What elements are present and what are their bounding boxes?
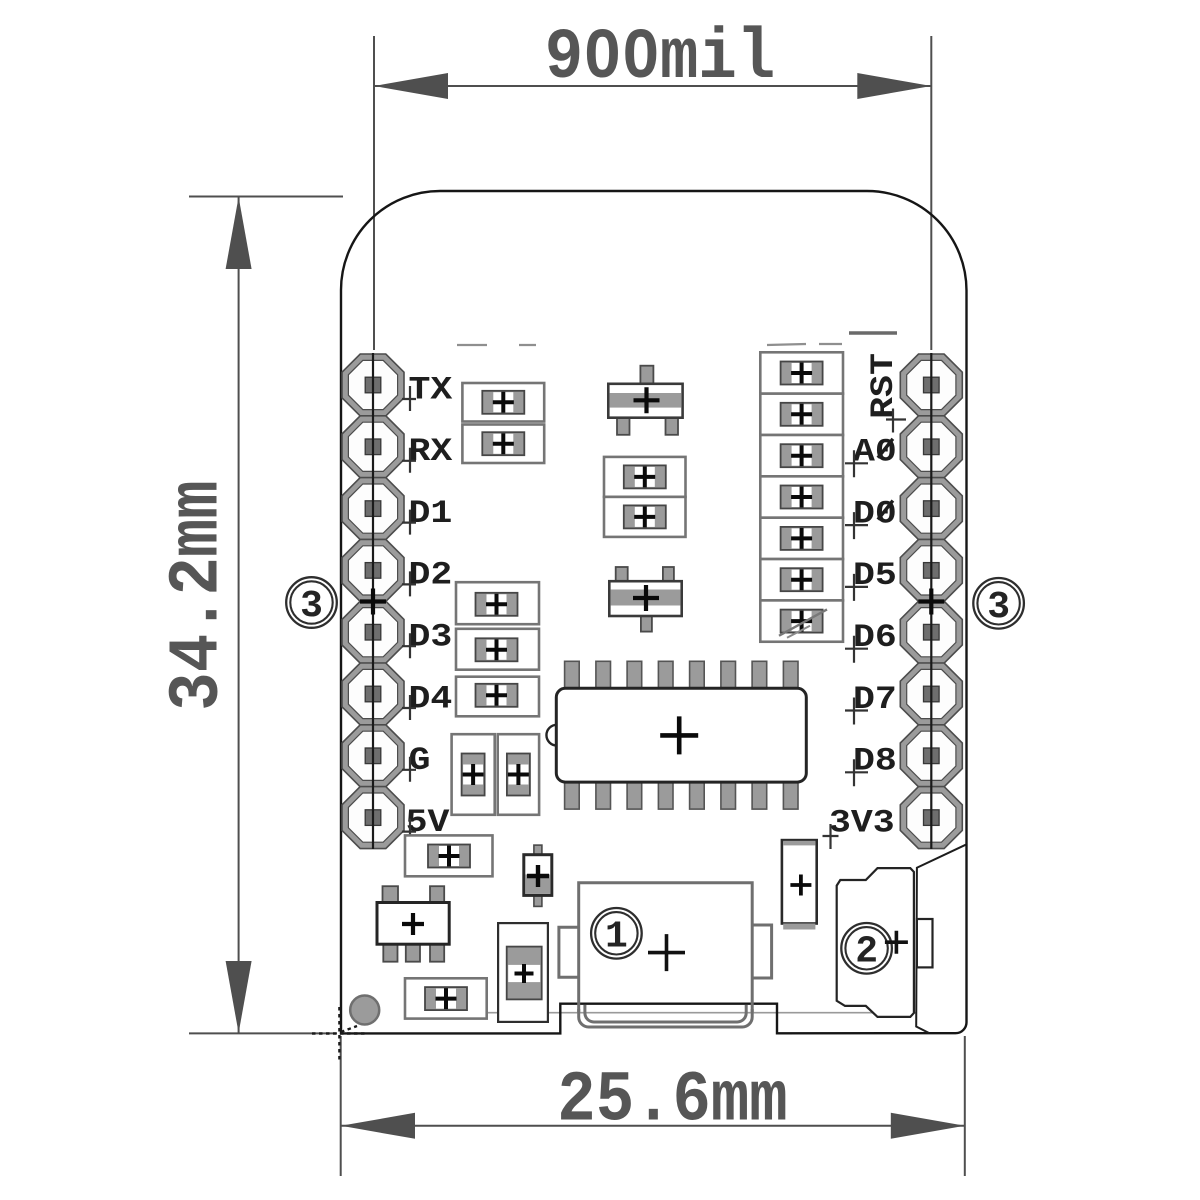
USB origin cross [648, 934, 685, 971]
svg-text:25.6mm: 25.6mm [557, 1061, 787, 1142]
resistor R11 [760, 394, 843, 435]
left header centerline [372, 353, 374, 849]
svg-text:D7: D7 [853, 681, 897, 718]
svg-text:34.2mm: 34.2mm [157, 480, 238, 710]
svg-text:D6: D6 [853, 620, 897, 657]
label D5 [845, 558, 897, 601]
pad D2 [342, 539, 404, 601]
pad 5V [342, 787, 404, 849]
resistor R7 [456, 677, 539, 717]
IC U1 [546, 661, 806, 809]
dimension 25.6mm extension lines and arrows [341, 1036, 965, 1176]
svg-text:3V3: 3V3 [829, 805, 895, 842]
regulator U2 [377, 886, 449, 962]
label D3 [402, 619, 452, 658]
label RST [865, 353, 906, 432]
button SW1 [837, 868, 933, 1017]
pad D1 [342, 478, 404, 540]
dimension label 34.2mm [157, 480, 238, 710]
fab line near bottom edge [485, 1012, 916, 1014]
pad D6 [900, 601, 962, 663]
pad D7 [900, 663, 962, 725]
dimension 900mil extension lines and arrows [374, 36, 931, 350]
pad G [342, 725, 404, 787]
svg-text:RST: RST [865, 353, 902, 419]
pad D4 [342, 663, 404, 725]
right header origin cross [918, 589, 944, 615]
pad RX [342, 416, 404, 478]
pad 3V3 [900, 787, 962, 849]
transistor Q1 [608, 366, 682, 435]
right header centerline [930, 353, 932, 849]
callout 1 [591, 908, 642, 959]
resistor R10 [760, 352, 843, 393]
svg-text:D4: D4 [409, 681, 453, 718]
label D8 [845, 743, 897, 786]
label D6 [845, 620, 897, 663]
label G [402, 743, 430, 782]
resistor R5 [456, 582, 539, 624]
callout 2 [841, 923, 892, 974]
resistor R9 [498, 734, 539, 815]
label A0 [845, 434, 897, 477]
svg-text:2: 2 [855, 931, 878, 974]
callout 3 right [973, 578, 1024, 629]
dimension label 900mil [545, 18, 775, 99]
resistor R12 [760, 435, 843, 476]
origin marker [312, 1007, 365, 1060]
svg-text:G: G [409, 743, 431, 780]
pad D0 [900, 478, 962, 540]
pad D3 [342, 601, 404, 663]
pad D5 [900, 539, 962, 601]
resistor R16 [760, 600, 843, 641]
label D7 [845, 681, 897, 724]
callout 3 left [286, 577, 337, 628]
label 3V3 [823, 805, 895, 849]
USB connector J1 [559, 883, 772, 1027]
resistor R3 [604, 457, 686, 497]
svg-text:D2: D2 [409, 557, 453, 594]
edge cut near button [916, 845, 966, 1033]
resistor R18 [405, 978, 487, 1018]
label D2 [402, 557, 452, 596]
svg-text:1: 1 [605, 916, 628, 959]
svg-text:D5: D5 [853, 558, 897, 595]
label RX [402, 434, 452, 473]
button origin cross [885, 931, 908, 954]
pad A0 [900, 416, 962, 478]
board outline [341, 191, 967, 1033]
resistor R2 [462, 425, 544, 464]
label D0 [845, 496, 897, 539]
resistor R13 [760, 476, 843, 517]
svg-text:RX: RX [409, 434, 453, 471]
label 5V [402, 804, 450, 843]
svg-text:3: 3 [987, 586, 1010, 629]
resistor R8 [452, 734, 495, 815]
pad TX [342, 354, 404, 416]
svg-text:D8: D8 [853, 743, 897, 780]
resistor R6 [456, 629, 539, 670]
svg-text:TX: TX [409, 372, 453, 409]
resistor R17 [405, 835, 493, 876]
svg-text:D1: D1 [409, 495, 453, 532]
label D1 [402, 495, 452, 534]
svg-text:D3: D3 [409, 619, 453, 656]
capacitor C2 [782, 840, 817, 929]
resistor R1 [462, 383, 544, 422]
svg-text:900mil: 900mil [545, 18, 775, 99]
dimension label 25.6mm [557, 1061, 787, 1142]
resistor R14 [760, 518, 843, 559]
capacitor C1 [498, 923, 548, 1022]
diode D2 [524, 845, 552, 906]
transistor Q2 [609, 567, 681, 632]
pad RST [900, 354, 962, 416]
svg-text:3: 3 [300, 585, 323, 628]
hole H1 [350, 996, 379, 1025]
resistor R4 [604, 497, 686, 537]
pad D8 [900, 725, 962, 787]
label TX [402, 372, 452, 411]
resistor R15 [760, 559, 843, 600]
left header origin cross [360, 589, 386, 615]
dimension 34.2mm extension lines and arrows [189, 197, 343, 1034]
silkscreen segments [457, 333, 897, 345]
label D4 [402, 681, 452, 720]
